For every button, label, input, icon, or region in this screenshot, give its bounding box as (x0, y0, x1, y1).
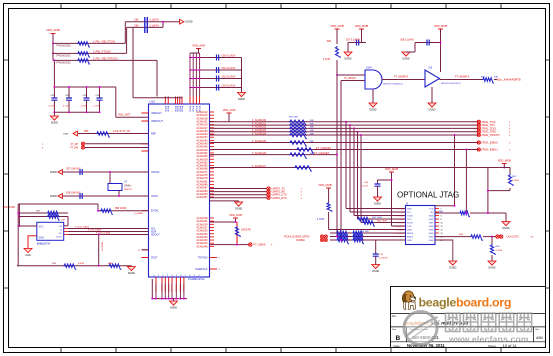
wire vcc eeprom (19, 225, 36, 227)
svg-text:16: 16 (441, 233, 443, 235)
svg-text:C98 12pF,50V: C98 12pF,50V (66, 193, 81, 195)
svg-text:R58 33R: R58 33R (360, 231, 369, 233)
junction trstn branch (454, 134, 456, 136)
wire uart gnd row (210, 200, 239, 202)
wire gate input2 vert (340, 81, 342, 241)
wire clkout row b (483, 236, 496, 238)
svg-text:TMS: TMS (407, 209, 412, 211)
svg-text:VDDA: VDDA (164, 105, 167, 112)
svg-text:DGND: DGND (235, 208, 242, 211)
wire clkout pull v2 (491, 255, 493, 261)
net connector cluster 4 (324, 238, 327, 241)
svg-text:PGOOD: PGOOD (167, 284, 169, 292)
svg-text:FT_655MT3: FT_655MT3 (394, 75, 409, 79)
U16 bottom pin wires (156, 283, 184, 299)
resistor R71 cluster b (352, 235, 364, 240)
svg-text:OSC0A: OSC0A (151, 171, 160, 174)
ground arrow osc1 (50, 170, 63, 175)
wire trstn to jtag (454, 135, 456, 206)
power VDD_MOB gate1 (330, 24, 343, 29)
svg-text:POAEBLGPGA: POAEBLGPGA (188, 278, 205, 281)
svg-text:DOUT: DOUT (56, 236, 63, 238)
wire jtag left row 3 (354, 215, 406, 217)
svg-text:VREFOUT: VREFOUT (151, 120, 163, 123)
wire eeprom data 3 (68, 234, 149, 236)
ground DGND clkout (488, 261, 496, 270)
wire j4 row2b (470, 212, 506, 214)
svg-text:0.1uF,6V: 0.1uF,6V (150, 19, 160, 22)
resistor R51 series (289, 123, 307, 128)
net connector JTAG_EMU1 (477, 148, 480, 151)
wire FT_VBUS3 long vertical (336, 75, 338, 237)
svg-text:TVD: TVD (429, 209, 434, 211)
svg-text:4.7K/R: 4.7K/R (496, 250, 503, 252)
U16 left pin stubs (142, 113, 149, 258)
svg-text:33R: 33R (310, 133, 314, 135)
wire jtag pwr into pin (392, 225, 406, 227)
wire row3 to cap rail (53, 60, 55, 87)
svg-text:12: 12 (441, 226, 443, 228)
svg-text:A5M: A5M (536, 336, 543, 340)
wire cap C69 leg (377, 180, 379, 184)
net labels JTAG left pins (392, 209, 404, 236)
wire tvdd row (210, 167, 488, 169)
svg-text:SLEEPCLK: SLEEPCLK (195, 268, 208, 271)
capacitor C69 (375, 184, 381, 186)
ground DGND buffer (428, 103, 436, 112)
svg-text:F_ACA6U05: F_ACA6U05 (252, 140, 267, 143)
svg-text:R66 100R: R66 100R (377, 221, 387, 223)
svg-text:DBG: DBG (407, 230, 412, 232)
wire pullup row2 (19, 216, 68, 218)
ground DGND bottom rail (127, 267, 135, 276)
junction tap JTAG_TDO (353, 127, 355, 129)
wire left rail B (18, 204, 20, 226)
svg-text:U15: U15 (428, 68, 433, 70)
junction top cap (162, 21, 164, 23)
junction tap JTAG_TRSTN (360, 134, 362, 136)
wire left rail corner (17, 265, 18, 267)
svg-text:EXTAL: EXTAL (151, 210, 159, 213)
svg-text:ACA6U46: ACA6U46 (196, 245, 208, 248)
resistor R68 cluster (336, 235, 349, 240)
wire buffer pwr stub (440, 29, 442, 72)
wire gnd stub bottom (173, 299, 175, 301)
wire FT_DM (85, 147, 149, 149)
svg-text:VDDA: VDDA (195, 105, 198, 112)
wire tap drop JTAG_TDI (349, 125, 351, 212)
svg-text:GND: GND (429, 230, 434, 232)
wire cap bank right drop (241, 58, 243, 93)
connector J4 pin stubs (402, 209, 440, 241)
U16 bottom pin net labels (154, 284, 184, 292)
svg-text:2_PM_ VDD_FTROGA: 2_PM_ VDD_FTROGA (93, 58, 118, 61)
svg-text:10: 10 (441, 223, 443, 225)
svg-text:VDDA: VDDA (181, 105, 184, 112)
svg-text:DM9: DM9 (63, 134, 68, 136)
wire gate input2 (341, 80, 365, 82)
ground DGND gate (369, 103, 377, 112)
svg-text:PGOOD: PGOOD (164, 284, 166, 292)
svg-text:24MHz: 24MHz (124, 186, 132, 188)
wire left rail A (17, 204, 19, 266)
capacitor C98 (80, 193, 82, 199)
wire bus JTAG_TMS (210, 131, 479, 133)
resistor R50 series (289, 120, 307, 125)
resistor R69 clkout (490, 244, 495, 255)
svg-text:2_PM1_FT2V5V: 2_PM1_FT2V5V (93, 51, 111, 54)
wire cap 2 top leg (86, 87, 88, 98)
ground DGND below U16 (170, 301, 178, 310)
svg-text:33R: 33R (310, 127, 314, 129)
wire clkout row a (435, 236, 470, 238)
svg-text:NX3225: NX3225 (124, 189, 133, 191)
wire loop top (18, 203, 98, 205)
wire pullup right v1 (509, 168, 511, 175)
wire J4 gnd vert (375, 240, 377, 252)
net connector JTAG_TCK (477, 120, 480, 123)
svg-text:33R: 33R (310, 123, 314, 125)
wire gnd stub caps (53, 112, 55, 116)
wire tvdd drop (487, 168, 489, 214)
svg-text:U14A: U14A (366, 67, 372, 70)
op-amp U16 main IC body (149, 104, 210, 277)
capacitor C67 (357, 40, 359, 46)
U16 right pin stubs (210, 112, 218, 269)
title block dividers (391, 314, 546, 342)
svg-text:VDD_3V3B: VDD_3V3B (46, 28, 60, 32)
resistor R59 emu1 (296, 148, 314, 153)
junction rail 1 (17, 212, 19, 214)
resistor R65 jtag (357, 217, 370, 222)
wire cap 2 bottom leg (86, 100, 88, 112)
wire eeprom data 1 (68, 228, 149, 230)
svg-text:RTCK: RTCK (407, 223, 413, 225)
capacitor C93 (97, 98, 103, 100)
junction crystal top (109, 171, 111, 173)
junction tap JTAG_TDI (349, 124, 351, 126)
svg-text:DGND: DGND (51, 122, 58, 125)
svg-text:4.7K/R: 4.7K/R (323, 59, 330, 61)
svg-text:www.elecfans.com: www.elecfans.com (448, 334, 529, 344)
junction vdd row2 (52, 52, 54, 54)
connector J4 JTAG body (406, 206, 436, 245)
svg-text:Date:: Date: (394, 344, 401, 348)
svg-text:VDD_MOB: VDD_MOB (385, 167, 398, 171)
capacitor C91 (66, 98, 72, 100)
wire gnd jog (130, 265, 132, 268)
resistor R54 series (289, 133, 307, 138)
wire vbus pullup vert (236, 222, 238, 245)
net connector CLKOUT2 a (496, 235, 499, 238)
U16 top pin names (164, 105, 201, 112)
svg-text:BLU_AAMAAEMTB: BLU_AAMAAEMTB (497, 78, 521, 82)
wire row2 gnd drop (505, 213, 507, 222)
wire top cap row2 (127, 26, 163, 28)
port arrow DM (73, 131, 78, 136)
junction crystal bottom (118, 195, 120, 197)
wire left drop x133 (132, 27, 134, 97)
ground DGND row2 (502, 222, 510, 231)
svg-text:GND: GND (429, 219, 434, 221)
wire j4 gnd right (435, 240, 453, 261)
junction tvdd join (487, 212, 489, 214)
resistor R95 (100, 209, 113, 214)
power VDD_AVM above IC (192, 44, 206, 49)
junction row3 (53, 59, 55, 61)
svg-text:DGND: DGND (238, 98, 245, 101)
resistor R102 row 3 (77, 59, 90, 64)
capacitor C68 (427, 40, 429, 46)
wire bottom rail (17, 265, 131, 267)
svg-text:TVDD: TVDD (407, 216, 413, 218)
wire tap drop JTAG_TMS (357, 132, 359, 219)
svg-text:F_SCK_DATA: F_SCK_DATA (75, 226, 89, 229)
svg-text:DGND: DGND (50, 195, 57, 198)
svg-text:FT_GASSET: FT_GASSET (314, 151, 330, 155)
svg-text:DO: DO (59, 233, 63, 235)
junction gate in1 (336, 74, 338, 76)
resistor R97 (108, 264, 121, 269)
net connector cluster 1 (320, 235, 323, 238)
svg-text:Sheet: Sheet (488, 344, 496, 348)
eeprom U12 body (37, 222, 64, 240)
net connector cluster 3 (320, 238, 323, 241)
wire cs drop (67, 217, 69, 226)
svg-text:10K: 10K (61, 220, 65, 222)
svg-text:VDD_3V3B: VDD_3V3B (3, 206, 16, 209)
net connector JTAG_TMS (477, 130, 480, 133)
wire top cap join (162, 22, 164, 28)
wire loop drop (97, 204, 99, 211)
capacitor C63 bank (217, 85, 219, 91)
wire tvdd to resistor (488, 167, 510, 169)
power VDD_NOB (229, 213, 242, 218)
wire j4 tvd row (435, 205, 455, 207)
svg-text:File:: File: (392, 315, 397, 318)
junction gasset (336, 154, 338, 156)
junction loop (97, 210, 99, 212)
power VDD_MOB right (498, 159, 511, 164)
resistor R101 row 2 (77, 52, 90, 57)
svg-text:C61 0.1uF,6V: C61 0.1uF,6V (222, 68, 236, 70)
wire tap drop JTAG_TRSTN (360, 135, 362, 223)
svg-text:GND: GND (429, 240, 434, 242)
svg-text:F_ACA6U04: F_ACA6U04 (252, 132, 267, 135)
wire j4 row2a (435, 212, 459, 214)
junction vbus (236, 244, 238, 246)
wire top cap row1 (125, 21, 180, 23)
resistor R64 (459, 211, 470, 216)
svg-text:13.0L.IN FT_D0: 13.0L.IN FT_D0 (113, 130, 131, 133)
wire reset drop (98, 235, 100, 266)
junction emu1 join (465, 212, 467, 214)
wire cap bank row 3 (190, 78, 242, 80)
wire gate gnd leg (372, 89, 374, 103)
svg-text:PGOOD: PGOOD (154, 284, 156, 292)
svg-text:4.7uF: 4.7uF (81, 106, 87, 108)
svg-text:DGND: DGND (369, 109, 376, 112)
wire cs into eeprom (64, 225, 68, 227)
net connector JTAG_TRSTN (477, 133, 480, 136)
resistor R60 pullup (335, 46, 340, 58)
wire top pin connections (165, 97, 182, 98)
net connector UART0_CTS (267, 193, 270, 196)
junction tap JTAG_TCK (345, 121, 347, 123)
svg-text:VDDA: VDDA (192, 105, 195, 112)
junction pullup right (487, 190, 489, 192)
junction dots cap bank (189, 57, 200, 89)
svg-text:C65: C65 (134, 25, 139, 28)
wire vdd stub (52, 34, 54, 44)
svg-text:F_ACA6U06: F_ACA6U06 (252, 152, 267, 155)
svg-text:PGOOD: PGOOD (182, 284, 184, 292)
power VDD_MOB buffer (434, 24, 447, 29)
svg-text:VREFGH: VREFGH (151, 112, 162, 115)
svg-text:C62 0.1uF,6V: C62 0.1uF,6V (222, 76, 236, 78)
wire jtag left row 1 (346, 208, 406, 210)
resistor R93 (96, 132, 110, 137)
wire bus JTAG_TRSTN (210, 134, 479, 136)
svg-text:6: 6 (441, 216, 442, 218)
svg-text:BBBBQATX4: BBBBQATX4 (37, 242, 51, 245)
wire row1 up (124, 22, 126, 44)
ground arrow osc2 (50, 194, 63, 199)
connector J4 right pin numbers (441, 209, 443, 243)
svg-text:JTAG_TRSTN: JTAG_TRSTN (481, 133, 499, 137)
resistor R69 cluster (336, 238, 349, 243)
wire clkout pull v1 (491, 237, 493, 244)
svg-text:PGOOD: PGOOD (179, 284, 181, 292)
wire avdd verticals (190, 53, 200, 97)
svg-text:F_GRRD: F_GRRD (134, 213, 143, 215)
wire avdd top join (190, 52, 200, 54)
wire cluster row 1 (330, 232, 406, 234)
wire cap C69 tap (378, 179, 392, 181)
wire cap C68 row (415, 42, 441, 44)
wire cluster row 3 (330, 239, 406, 241)
svg-text:14: 14 (441, 230, 443, 232)
wire eeprom data 2 (68, 231, 149, 233)
wire cap bank row 2 (190, 69, 242, 71)
wire C68 gnd leg (414, 43, 416, 53)
wire vbus row (210, 244, 249, 246)
wire row3 down (156, 60, 158, 96)
svg-text:DGND: DGND (344, 58, 351, 61)
wire gate input1 (337, 74, 365, 76)
junction tvd (454, 205, 456, 207)
svg-text:C63 0.1uF,6V: C63 0.1uF,6V (222, 85, 236, 87)
svg-text:VDDA: VDDA (189, 105, 192, 112)
capacitor C92 (84, 98, 90, 100)
svg-text:FT_GASSET: FT_GASSET (316, 146, 332, 150)
svg-text:33R: 33R (310, 120, 314, 122)
resistor R62 pullup right (508, 174, 513, 186)
junction vddnob (235, 221, 237, 223)
svg-text:PGOOD: PGOOD (170, 284, 172, 292)
svg-text:PGOOD: PGOOD (160, 284, 162, 292)
wire vdd rows join (52, 43, 54, 60)
wire usb row (78, 133, 149, 135)
svg-text:VDDA: VDDA (167, 105, 170, 112)
svg-text:C64: C64 (134, 19, 139, 22)
capacitor C64 bars (145, 17, 148, 33)
wire cap C67 stub (361, 29, 363, 43)
U16 right pin name column (196, 111, 208, 248)
wire avdd pwr stub (198, 49, 200, 54)
svg-text:4.7uF: 4.7uF (48, 106, 54, 108)
junction cluster in2 (340, 239, 342, 241)
wire tap drop JTAG_TDO (353, 128, 355, 215)
net connector UART0_RTS (267, 196, 270, 199)
svg-text:TCK: TCK (407, 226, 412, 228)
crystal Y4 body (108, 184, 122, 191)
wire pullup row1 (19, 212, 68, 214)
resistor R67 cluster (327, 202, 332, 212)
wire cap bank row 1 (190, 57, 242, 59)
svg-text:33R: 33R (310, 130, 314, 132)
wire uart gnd stub (238, 201, 240, 202)
junction bottom rail (98, 265, 100, 267)
wire cluster row 2 (330, 236, 406, 238)
net connector cluster 2 (324, 235, 327, 238)
svg-text:DGND: DGND (402, 58, 409, 61)
svg-text:FT_DM: FT_DM (70, 148, 78, 150)
wire jtag left row 4a (358, 218, 406, 220)
svg-text:GND: GND (25, 254, 31, 257)
svg-text:OPTIONAL JTAG: OPTIONAL JTAG (397, 191, 459, 200)
wire cap 3 top leg (99, 87, 101, 98)
wire test stub (142, 249, 149, 251)
svg-text:R93: R93 (84, 130, 89, 133)
svg-text:8: 8 (441, 219, 442, 221)
net connector UART0_TX (267, 187, 270, 190)
wire UART0_RTS (210, 197, 268, 199)
svg-text:KEY: KEY (429, 223, 434, 225)
svg-text:FT_VBUS3: FT_VBUS3 (344, 78, 356, 80)
svg-text:EMU1: EMU1 (407, 237, 414, 239)
resistor R67 cluster (336, 231, 349, 236)
wire cap 0 top leg (53, 87, 55, 98)
net connector JTAG_EMU0 (477, 141, 480, 144)
wire mode row 1 (53, 42, 125, 44)
ground DGND uart (235, 202, 243, 211)
junction vdd row1 (52, 42, 54, 44)
capacitor C62 bank (217, 76, 219, 82)
svg-text:TEST: TEST (151, 257, 158, 260)
svg-text:R55 33R: R55 33R (289, 117, 298, 119)
wire cluster pullup v1 (328, 188, 330, 202)
wire C68 gnd h (406, 51, 415, 53)
wire gate1 input vert (336, 60, 338, 75)
svg-text:GND: GND (429, 237, 434, 239)
svg-text:DGND: DGND (50, 171, 57, 174)
svg-text:CS: CS (59, 226, 63, 228)
svg-text:4.7uF: 4.7uF (94, 106, 100, 108)
wire mode row 3 (53, 59, 157, 61)
svg-text:C60 0.1uF,6V: C60 0.1uF,6V (222, 55, 236, 57)
ground arrow DGND top (180, 19, 193, 24)
svg-text:GND: GND (39, 238, 44, 240)
wire osc out (63, 195, 149, 197)
wire UART0_CTS (210, 194, 268, 196)
svg-text:VDD_MOB: VDD_MOB (498, 159, 511, 163)
resistor R63 vbus (235, 226, 240, 237)
svg-text:TDI: TDI (407, 212, 411, 214)
capacitor C70 (373, 254, 379, 256)
svg-text:SN74LVC2G08DCU: SN74LVC2G08DCU (383, 84, 403, 86)
svg-text:UART0_RTS: UART0_RTS (272, 196, 287, 200)
